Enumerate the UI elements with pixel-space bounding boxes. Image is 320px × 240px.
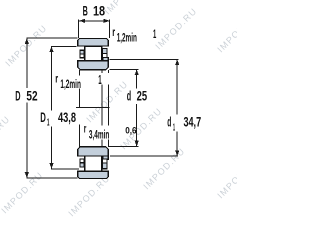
bearing top section xyxy=(78,39,109,70)
svg-text:d: d xyxy=(127,87,131,103)
watermark IMPOD.RU tiles xyxy=(0,0,261,218)
arrowheads xyxy=(25,19,180,178)
cage pocket right lower bottom xyxy=(103,163,107,169)
wire mid silhouette line b xyxy=(107,70,109,147)
wire B dimension line xyxy=(79,20,110,22)
cage pocket right bottom xyxy=(103,159,107,163)
svg-text:25: 25 xyxy=(137,87,148,103)
wire d1 top extension xyxy=(110,58,179,60)
arrow B right xyxy=(104,19,110,23)
svg-text:B: B xyxy=(83,3,88,19)
wire d top extension xyxy=(110,68,139,70)
svg-text:0,6: 0,6 xyxy=(125,126,136,136)
inner ring top band xyxy=(78,61,109,70)
cage pocket left lower top xyxy=(80,54,84,58)
svg-text:18: 18 xyxy=(93,3,105,19)
svg-text:1: 1 xyxy=(173,123,175,134)
wire D dimension line xyxy=(26,38,28,88)
wire B right extension line xyxy=(108,20,110,38)
arrow d up xyxy=(135,69,139,75)
svg-text:43,8: 43,8 xyxy=(58,109,76,125)
svg-text:1: 1 xyxy=(47,118,50,129)
svg-text:52: 52 xyxy=(26,88,37,104)
label r mid xyxy=(54,73,87,91)
cage pocket left bottom xyxy=(80,159,84,163)
label d1 34,7 xyxy=(165,114,206,134)
svg-text:d: d xyxy=(167,114,171,130)
roller top xyxy=(85,46,102,60)
svg-text:D: D xyxy=(15,88,20,104)
wire D bottom extension xyxy=(26,177,77,179)
wire d bottom extension xyxy=(108,145,138,147)
svg-text:1,2min: 1,2min xyxy=(117,33,137,45)
svg-text:D: D xyxy=(40,109,46,125)
wire D1 dimension line xyxy=(51,46,53,110)
cage pocket left top xyxy=(80,50,84,54)
wire mid silhouette line a xyxy=(101,70,103,147)
label value 1 mid xyxy=(97,73,110,87)
arrow D1 down xyxy=(49,163,53,169)
roller bottom xyxy=(85,156,102,171)
svg-text:1: 1 xyxy=(98,73,101,87)
bearing bottom section xyxy=(78,147,109,179)
wire d1 dimension line xyxy=(176,59,178,114)
inner ring bottom band xyxy=(78,147,109,156)
label d 25 xyxy=(125,87,149,103)
outer ring bottom band xyxy=(78,171,109,178)
wire d1 bottom extension xyxy=(110,155,178,157)
label r 3,4min xyxy=(83,124,111,142)
wire centerline xyxy=(76,106,110,108)
arrow B left xyxy=(79,19,85,23)
cage pocket right lower top xyxy=(103,54,107,58)
cage pocket left lower bottom xyxy=(80,163,84,167)
svg-text:r: r xyxy=(112,27,115,39)
wire B left extension line xyxy=(78,20,80,38)
arrow D up xyxy=(25,38,29,44)
cage pocket right top xyxy=(103,48,107,53)
arrow D1 up xyxy=(49,46,53,52)
svg-text:3,4min: 3,4min xyxy=(89,129,109,141)
wire D1 top extension xyxy=(51,45,77,47)
outer ring top band xyxy=(78,39,109,46)
arrow d down xyxy=(135,141,139,147)
loose flange ring top xyxy=(103,57,108,60)
arrow d1 down xyxy=(175,150,179,156)
wire D1 bottom extension xyxy=(51,168,79,170)
arrow d1 up xyxy=(175,59,179,65)
wire d dimension line xyxy=(136,69,138,88)
svg-text:1,2min: 1,2min xyxy=(60,79,81,91)
label D 52 xyxy=(14,88,39,104)
label D1 43,8 xyxy=(39,109,81,129)
svg-text:r: r xyxy=(55,73,58,85)
svg-text:r: r xyxy=(84,124,87,136)
svg-text:1: 1 xyxy=(153,29,157,41)
wire left silhouette line xyxy=(79,70,81,108)
loose flange ring bottom xyxy=(103,156,108,159)
svg-text:34,7: 34,7 xyxy=(184,114,202,130)
wire D top extension xyxy=(26,37,77,39)
arrow D down xyxy=(25,172,29,178)
